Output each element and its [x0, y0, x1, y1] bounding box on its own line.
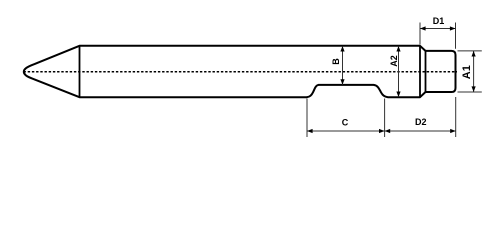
- dimension D1: [420, 16, 456, 49]
- shaft end edge (chamfer start): [419, 46, 421, 97]
- dimension B: [331, 46, 345, 85]
- chamfer end edge / head start: [425, 51, 427, 92]
- svg-text:B: B: [331, 58, 341, 65]
- svg-text:A1: A1: [461, 65, 473, 79]
- centerline: [24, 71, 458, 73]
- svg-text:D2: D2: [415, 117, 427, 127]
- svg-text:C: C: [342, 118, 349, 128]
- dimension D2: [385, 97, 456, 137]
- svg-text:D1: D1: [433, 16, 445, 26]
- dimension A1: [458, 51, 482, 92]
- dimension C: [307, 99, 385, 138]
- pilot pin body outline: [24, 46, 456, 97]
- cone-cylinder edge: [79, 46, 81, 97]
- dimension A2: [389, 46, 401, 97]
- svg-text:A2: A2: [389, 55, 399, 67]
